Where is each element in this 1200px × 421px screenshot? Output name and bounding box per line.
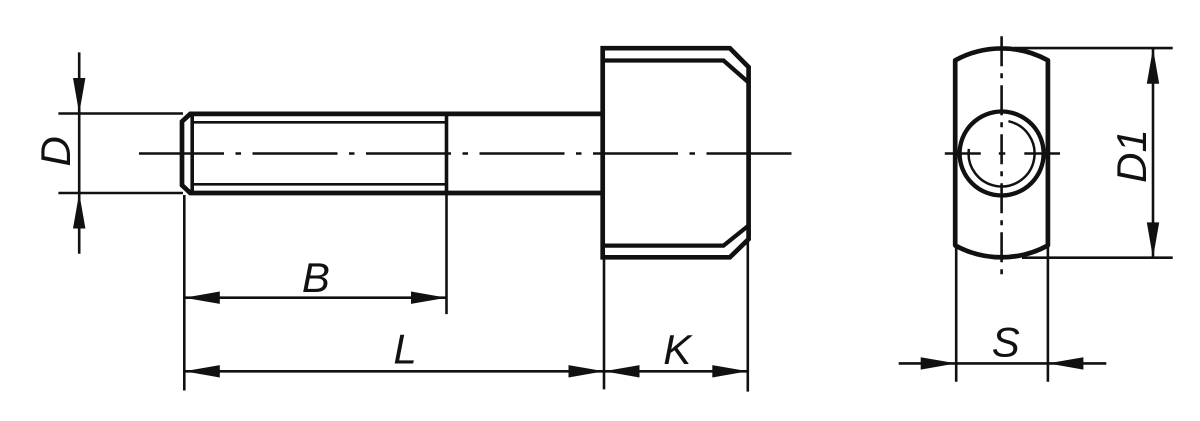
dimension S line (899, 362, 1107, 365)
head chamfer inner top line (603, 61, 749, 83)
horizontal centerline of end view (945, 152, 1060, 155)
dimension S arrow right (1048, 357, 1084, 369)
dimension B line (184, 296, 446, 299)
screw shaft outline with chamfered thread end (182, 114, 603, 193)
thread inner arc (partial circle) (969, 121, 1035, 186)
dimension K line (604, 370, 748, 373)
svg-text:L: L (393, 326, 416, 373)
svg-text:D1: D1 (1108, 129, 1155, 183)
dimension D line (78, 52, 81, 253)
dimension S arrow left (921, 357, 957, 369)
dimension D extension line top (58, 112, 183, 115)
screw head outline with chamfered corners (603, 48, 749, 257)
dimension D1 line (1152, 48, 1155, 258)
head chamfer inner bottom line (603, 226, 749, 246)
dimension L arrow right (569, 365, 605, 377)
dimension B arrow right (411, 292, 447, 304)
dimension D arrow bottom (73, 193, 85, 229)
dimension B arrow left (184, 292, 220, 304)
dimension D arrow top (73, 78, 85, 114)
svg-text:S: S (992, 319, 1020, 366)
dimension D1 arrow bottom (1147, 222, 1159, 258)
thread chamfer vertical line (190, 114, 194, 193)
threaded hole outer circle (960, 112, 1044, 196)
centerline of screw axis (139, 152, 793, 155)
dimension D1 top extension line (1014, 47, 1173, 50)
dimension B left extension line (183, 195, 186, 391)
dimension K right extension line (746, 240, 749, 392)
dimension L line (184, 370, 604, 373)
head end-view outline: flats with curved top and bottom (955, 48, 1048, 257)
dimension S left extension line (955, 246, 958, 382)
dimension B right extension line (445, 195, 448, 314)
dimension L arrow left (184, 365, 220, 377)
dimension K left extension line (603, 260, 606, 390)
thread minor diameter top line (192, 121, 446, 124)
svg-text:B: B (302, 254, 330, 301)
thread runout vertical line (445, 112, 449, 195)
dimension S right extension line (1047, 246, 1050, 382)
dimension K arrow right (712, 365, 748, 377)
svg-text:D: D (32, 136, 79, 166)
dimension D extension line bottom (58, 192, 183, 195)
dimension D1 arrow top (1147, 48, 1159, 84)
dimension K arrow left (604, 365, 640, 377)
svg-text:K: K (663, 326, 693, 373)
vertical centerline of end view (1000, 36, 1003, 277)
dimension D1 bottom extension line (1022, 256, 1173, 259)
thread minor diameter bottom line (192, 183, 446, 186)
